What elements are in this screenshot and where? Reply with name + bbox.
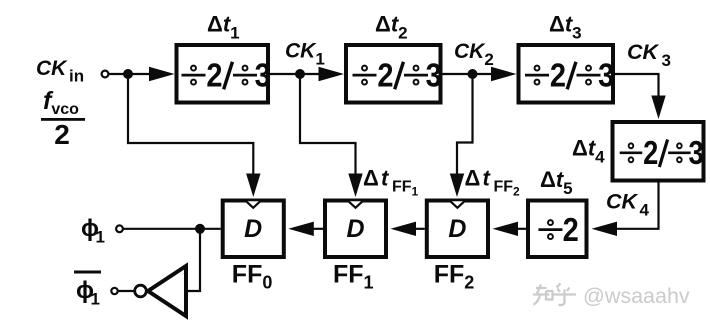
svg-text:2: 2 [643, 136, 658, 172]
wire input to divider1 [109, 73, 161, 75]
wire divider1 to divider2 [270, 73, 330, 75]
divider box4 content divide-by-2/3 [620, 136, 704, 172]
divider box1 [177, 45, 269, 103]
divide-by-2 box [528, 201, 587, 258]
wire divide-by-2 to FF2 [517, 228, 526, 230]
arrowhead into FF2 [493, 222, 519, 236]
flip-flop FF0 box [223, 201, 284, 258]
svg-text:2: 2 [54, 119, 70, 150]
svg-text:D: D [244, 215, 262, 243]
svg-text:3: 3 [255, 57, 271, 94]
arrowhead clock into FF0 [246, 174, 260, 198]
junction node CKin [123, 69, 133, 79]
svg-text:2: 2 [377, 57, 393, 94]
FF0 clock notch [246, 201, 260, 208]
divider box4 [613, 122, 704, 181]
svg-text:3: 3 [426, 57, 442, 94]
arrowhead into FF0 [288, 222, 314, 236]
inverter bubble [135, 285, 147, 297]
junction node phi1 [195, 224, 205, 234]
svg-text:3: 3 [688, 136, 703, 172]
clock route CKin to FF0 [128, 74, 253, 176]
watermark zhihu glyphs [533, 284, 576, 306]
arrowhead into divider2 [319, 67, 345, 81]
svg-text:2: 2 [550, 57, 566, 94]
divide-by-2 box content [538, 211, 578, 248]
svg-text:2: 2 [206, 57, 222, 94]
FF1 clock notch [349, 201, 363, 208]
divider box3 content divide-by-2/3 [525, 57, 614, 94]
svg-text:3: 3 [598, 57, 614, 94]
divider box1 content divide-by-2/3 [182, 57, 271, 94]
arrowhead into divider4 [651, 96, 665, 120]
arrowhead into divider3 [491, 67, 517, 81]
divider box2 [346, 45, 441, 103]
flip-flop FF1 box [325, 201, 386, 258]
svg-text:D: D [346, 215, 364, 243]
phi1bar terminal [111, 288, 117, 294]
FF2 clock notch [450, 201, 464, 208]
arrowhead clock into FF1 [348, 174, 362, 198]
wire phi1 node to inverter input [186, 229, 200, 291]
clock route CK2 to FF2 [457, 74, 473, 176]
wire divider2 to divider3 [443, 73, 501, 75]
input terminal [102, 71, 109, 78]
phi1 terminal [116, 225, 123, 232]
junction node CK1 [295, 69, 305, 79]
wire FF1 to FF0 [313, 228, 323, 230]
svg-text:D: D [448, 215, 466, 243]
clock route CK1 to FF1 [300, 74, 356, 176]
arrowhead clock into FF2 [450, 174, 464, 198]
wire divider4 to divide-by-2 box [610, 183, 659, 229]
divider box3 [519, 45, 614, 103]
divider box2 content divide-by-2/3 [353, 57, 442, 94]
wire phi1 to FF0 [123, 228, 221, 230]
junction node CK2 [468, 69, 478, 79]
wire divider3 to divider4 [615, 74, 659, 100]
inverter triangle [148, 266, 186, 316]
flip-flop FF2 box [427, 201, 488, 258]
svg-text:@wsaaahv: @wsaaahv [583, 284, 690, 308]
arrowhead into divide-by-2 box [592, 222, 618, 236]
svg-text:2: 2 [563, 211, 579, 248]
label phi1bar overbar [74, 271, 101, 274]
wire bubble to phi1bar terminal [118, 290, 135, 292]
arrowhead into FF1 [391, 222, 417, 236]
arrowhead into divider1 [149, 67, 175, 81]
wire FF2 to FF1 [415, 228, 425, 230]
